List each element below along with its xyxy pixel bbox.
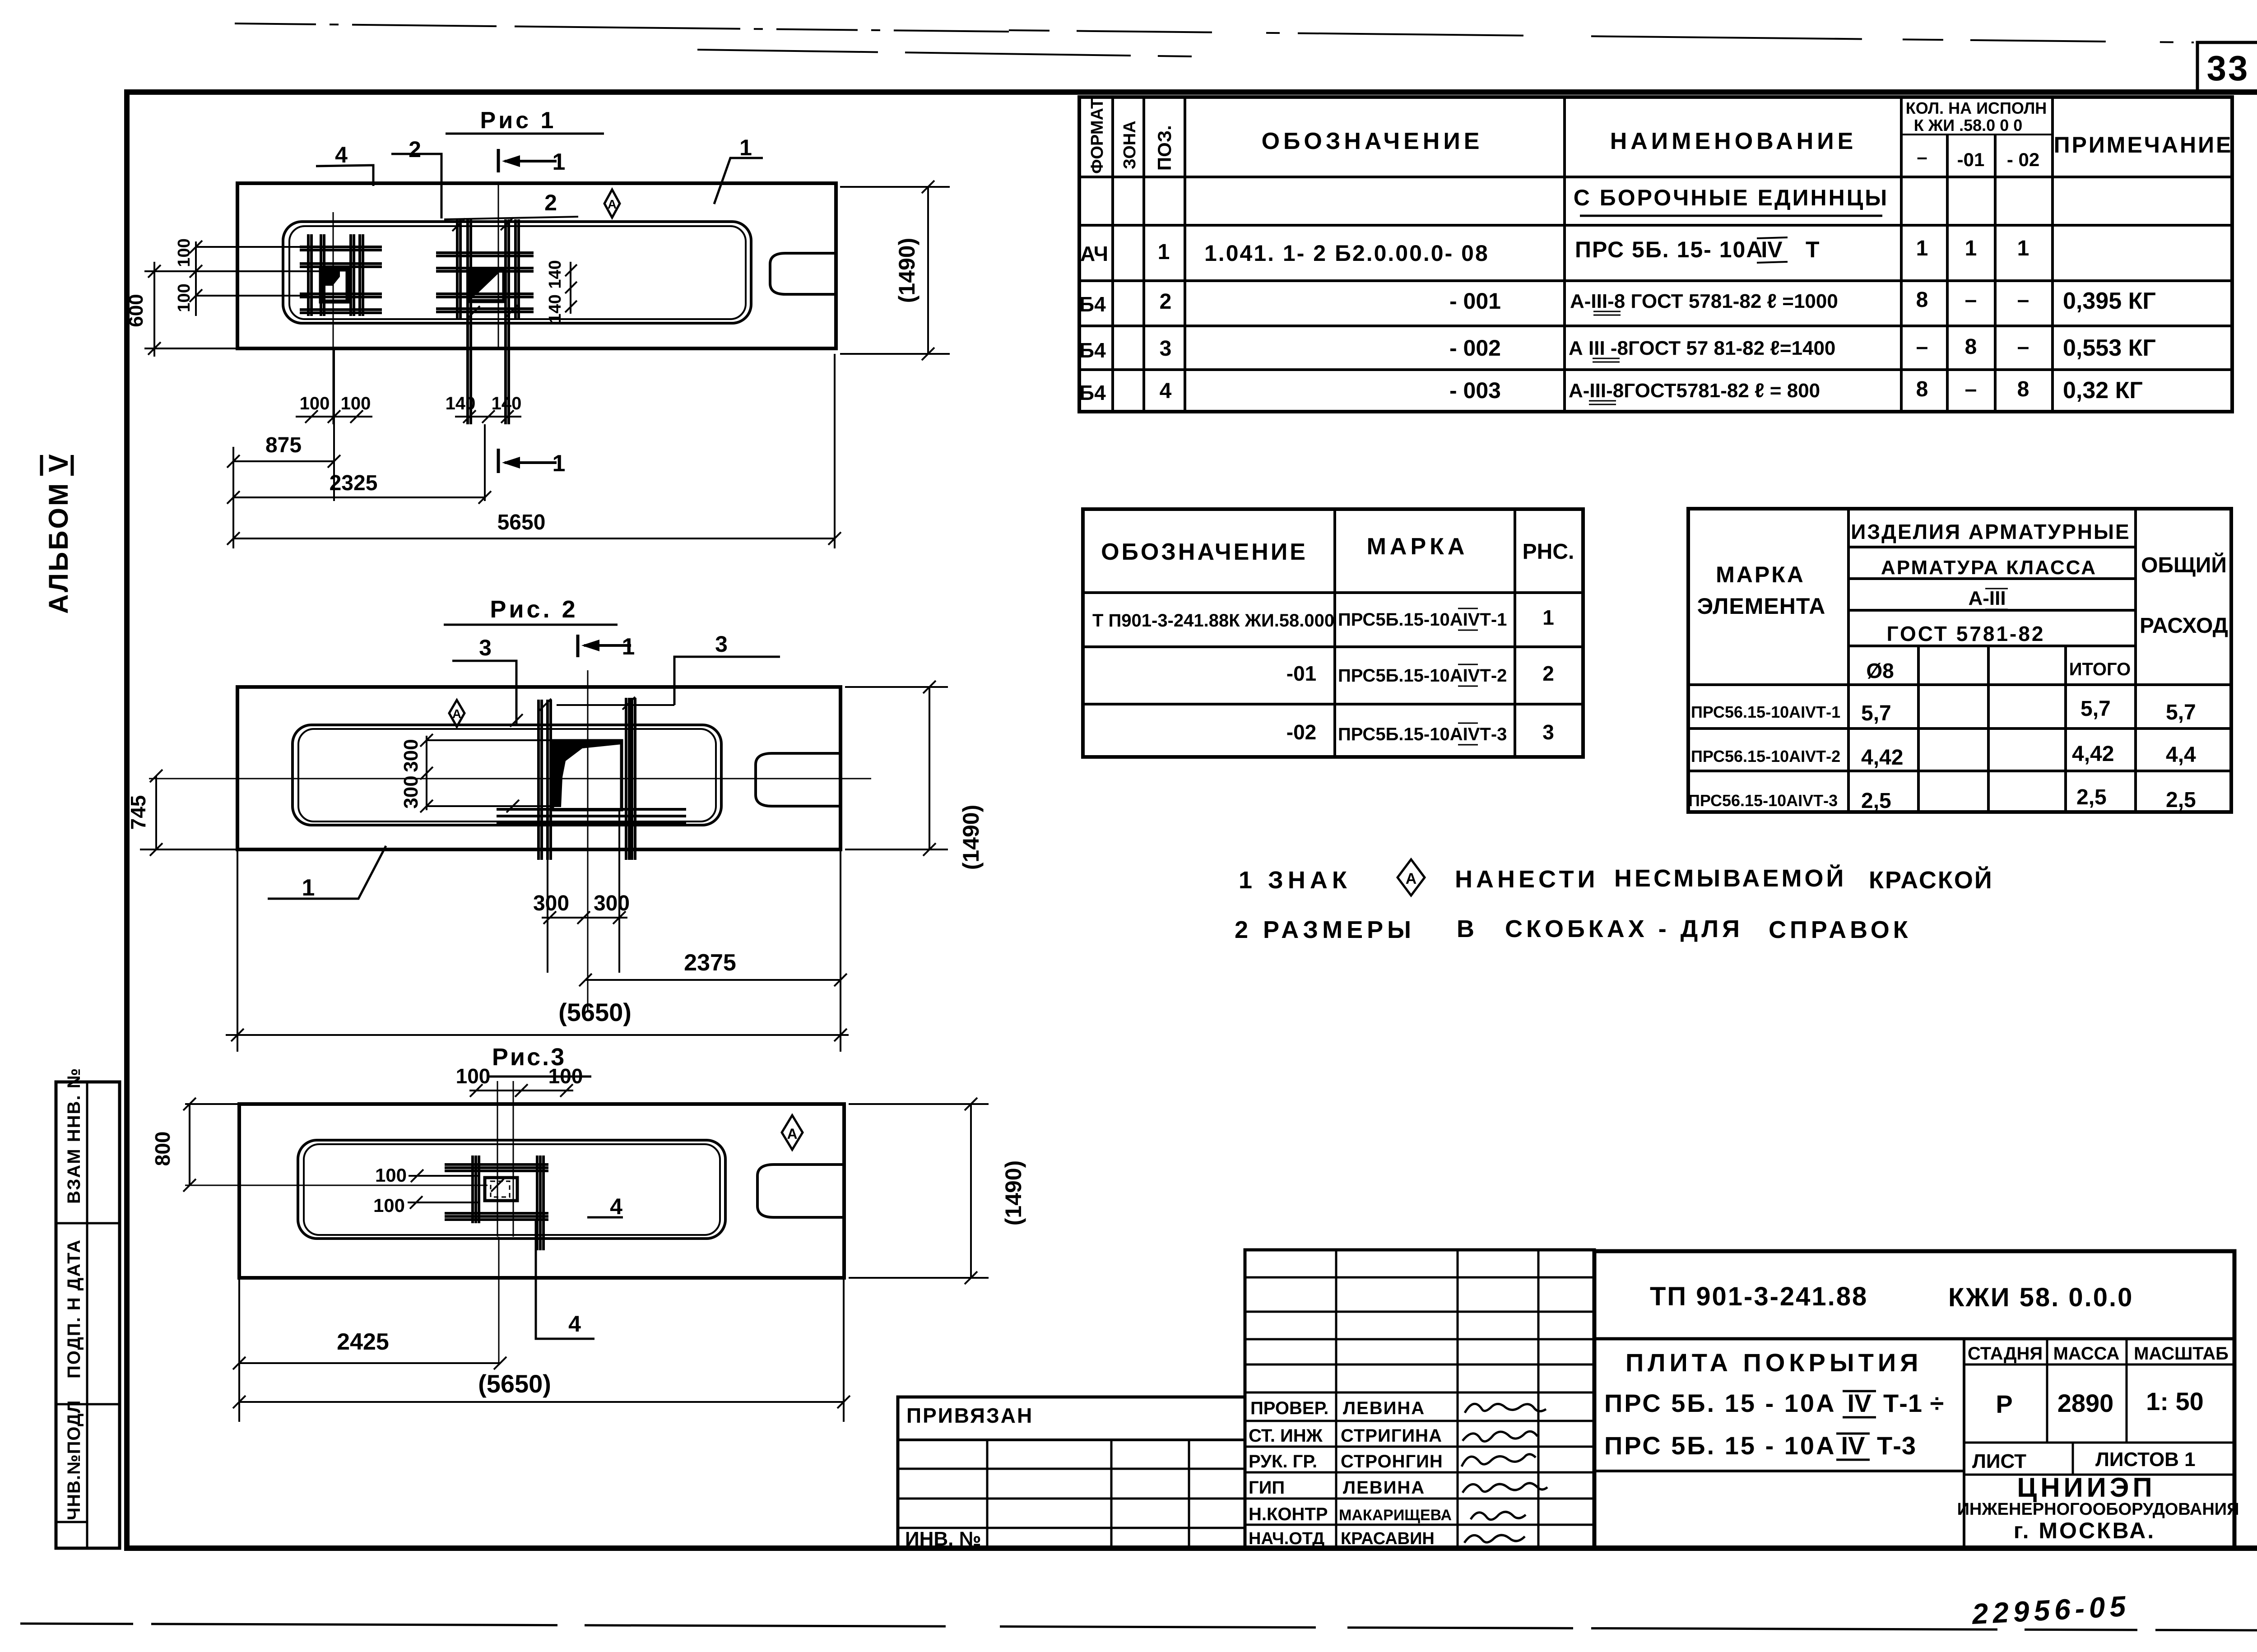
fig3 centerline horizontal [185, 1185, 488, 1186]
svg-text:1: 1 [302, 875, 315, 901]
fig2 lifting notch [756, 753, 841, 806]
fig3 dim 100 inside bottom [373, 1195, 478, 1216]
fig3 leader 4 below [536, 1219, 594, 1339]
svg-text:–: – [2017, 335, 2029, 359]
svg-text:1: 1 [622, 634, 635, 660]
svg-text:–: – [1965, 288, 1977, 312]
scan streak top line 3 [697, 50, 1192, 56]
svg-text:8: 8 [1965, 335, 1977, 359]
svg-text:А: А [1406, 870, 1417, 887]
svg-text:КРАСКОЙ: КРАСКОЙ [1869, 866, 1993, 894]
svg-text:(5650): (5650) [558, 998, 632, 1026]
svg-text:IV: IV [1841, 1431, 1865, 1460]
svg-text:5650: 5650 [497, 510, 546, 534]
svg-text:1: 1 [1916, 237, 1928, 260]
svg-text:–: – [1965, 377, 1977, 401]
svg-text:Ø8: Ø8 [1866, 659, 1894, 682]
svg-text:ПРС56.15-10АIVТ-2: ПРС56.15-10АIVТ-2 [1691, 747, 1840, 766]
svg-text:1: 1 [739, 135, 752, 160]
svg-text:ИНВ. №: ИНВ. № [905, 1528, 981, 1550]
svg-text:А-III: А-III [1968, 587, 2006, 609]
svg-text:100: 100 [375, 1165, 407, 1186]
svg-text:–: – [2017, 288, 2029, 312]
fig1 left dim 600 [125, 262, 161, 357]
svg-text:2375: 2375 [684, 950, 736, 976]
svg-text:3: 3 [1542, 720, 1554, 744]
svg-text:–: – [1916, 335, 1928, 359]
spec row 1 [1080, 237, 2029, 266]
svg-text:IV: IV [1848, 1389, 1872, 1417]
svg-text:2890: 2890 [2057, 1389, 2114, 1417]
fig2 section marker 1 [578, 634, 635, 660]
fig3 dim 800 left [151, 1098, 239, 1192]
svg-text:МАКАРИЩЕВА: МАКАРИЩЕВА [1339, 1507, 1452, 1524]
spec table column lines [1113, 97, 2053, 412]
svg-text:5,7: 5,7 [1861, 701, 1891, 725]
fig2 recess inner [298, 729, 716, 821]
svg-text:8: 8 [1916, 377, 1928, 401]
signature squiggle 3 [1462, 1454, 1536, 1466]
fig1 label 2 on bar [444, 190, 578, 219]
svg-text:(5650): (5650) [478, 1369, 551, 1398]
svg-text:-01: -01 [1286, 662, 1316, 685]
SECTION:REINFTABLE [1688, 509, 2231, 813]
svg-text:ПЛИТА ПОКРЫТИЯ: ПЛИТА ПОКРЫТИЯ [1625, 1348, 1922, 1377]
fig3 recess outer [298, 1140, 725, 1239]
fig2 dim 300 300 inside [400, 734, 556, 812]
svg-text:ПРС56.15-10АIVТ-1: ПРС56.15-10АIVТ-1 [1691, 703, 1840, 721]
svg-text:С БОРОЧНЫЕ ЕДИННЦЫ: С БОРОЧНЫЕ ЕДИННЦЫ [1574, 185, 1889, 210]
svg-text:ЭЛЕМЕНТА: ЭЛЕМЕНТА [1697, 594, 1826, 619]
svg-text:- 02: - 02 [2007, 149, 2039, 170]
fig3 title underline [488, 1076, 591, 1078]
fig2 dim 300 300 below [533, 891, 630, 924]
svg-text:СКОБКАХ - ДЛЯ: СКОБКАХ - ДЛЯ [1505, 915, 1743, 942]
fig1 recess inner [289, 226, 746, 319]
svg-text:ЛЕВИНА: ЛЕВИНА [1343, 1478, 1425, 1498]
reinf table verticals [1848, 509, 2136, 812]
fig1 mesh B verticals [457, 219, 519, 424]
svg-text:4: 4 [568, 1311, 581, 1336]
svg-text:ФОРМАТ: ФОРМАТ [1088, 98, 1107, 174]
fig1 dim 100 100 below [296, 394, 372, 423]
svg-text:2,5: 2,5 [2076, 785, 2107, 809]
fig1 mesh B square [469, 269, 504, 301]
svg-text:А III -8ГОСТ 57 81-82 ℓ=1400: А III -8ГОСТ 57 81-82 ℓ=1400 [1569, 337, 1835, 359]
privyazan grid horizontals [898, 1469, 1245, 1528]
fig2 mesh top bar link [557, 704, 674, 706]
central grid horizontals upper [1245, 1277, 1594, 1392]
fig3 dim 2425 [233, 1329, 506, 1369]
fig1 dim 5650 [227, 510, 841, 545]
svg-text:АЧ: АЧ [1080, 242, 1108, 265]
stamp strip divider vertical [86, 1082, 88, 1548]
signature squiggle 4 [1463, 1483, 1547, 1493]
svg-text:IV: IV [1761, 237, 1783, 262]
svg-text:8: 8 [1916, 288, 1928, 312]
fig3 center verticals [497, 1081, 513, 1363]
svg-text:ЛИСТ: ЛИСТ [1972, 1450, 2026, 1472]
svg-text:СТРИГИНА: СТРИГИНА [1341, 1426, 1442, 1446]
svg-text:1 ЗНАК: 1 ЗНАК [1239, 867, 1351, 894]
svg-text:1: 1 [1158, 240, 1170, 264]
fig3 extension verticals [239, 1278, 844, 1422]
fig2 extension verticals below [237, 808, 841, 1052]
svg-text:-01: -01 [1957, 149, 1985, 170]
fig2 recess outer [293, 725, 721, 825]
SECTION:FIG1 [125, 107, 950, 548]
reinf row 3 [1688, 785, 2196, 813]
svg-text:ГОСТ 5781-82: ГОСТ 5781-82 [1886, 622, 2045, 645]
fig1 mesh B dark corner [471, 271, 501, 298]
fig2 mesh verticals right [626, 698, 635, 860]
reinf row 2 [1691, 742, 2196, 770]
svg-text:Рис 1: Рис 1 [480, 107, 557, 134]
svg-text:- 003: - 003 [1449, 378, 1501, 403]
fig3 dim 1490 right [849, 1098, 1026, 1284]
svg-text:600: 600 [125, 294, 147, 327]
svg-text:875: 875 [265, 433, 302, 457]
privyazan box [898, 1397, 1245, 1548]
svg-text:2325: 2325 [330, 471, 378, 495]
svg-text:140: 140 [492, 394, 522, 413]
svg-text:3: 3 [715, 631, 728, 657]
svg-text:4: 4 [335, 142, 348, 167]
SECTION:SPECTABLE [1079, 97, 2233, 412]
svg-text:2 РАЗМЕРЫ: 2 РАЗМЕРЫ [1235, 916, 1415, 943]
fig2 quality mark diamond [449, 700, 464, 727]
svg-text:ПОДП. Н ДАТА: ПОДП. Н ДАТА [64, 1239, 84, 1378]
svg-text:МАСШТАБ: МАСШТАБ [2134, 1344, 2229, 1364]
svg-text:НАНЕСТИ: НАНЕСТИ [1455, 866, 1598, 893]
svg-text:РАСХОД: РАСХОД [2140, 614, 2228, 638]
fig2 leader 1 bottom [268, 846, 386, 901]
svg-text:Т-1 ÷: Т-1 ÷ [1883, 1389, 1944, 1417]
svg-text:ТП 901-3-241.88: ТП 901-3-241.88 [1650, 1282, 1868, 1311]
svg-text:Б4: Б4 [1079, 339, 1106, 362]
svg-text:ГИП: ГИП [1249, 1478, 1285, 1498]
central grid verticals [1336, 1250, 1538, 1548]
scan streak bottom line [20, 1624, 2257, 1630]
svg-text:ОБОЗНАЧЕНИЕ: ОБОЗНАЧЕНИЕ [1262, 128, 1483, 154]
stamp strip divider h2 [56, 1403, 120, 1406]
svg-text:КЖИ 58. 0.0.0: КЖИ 58. 0.0.0 [1948, 1283, 2133, 1312]
svg-text:4: 4 [1160, 379, 1172, 403]
svg-text:ВЗАМ ННВ. №: ВЗАМ ННВ. № [64, 1067, 84, 1204]
svg-text:В: В [1457, 915, 1474, 942]
spec table row lines [1079, 177, 2232, 370]
svg-text:(1490): (1490) [1001, 1160, 1026, 1226]
fig2 dim 1490 right [845, 681, 984, 870]
fig3 plate outline [239, 1104, 844, 1278]
fig1 recess outer [283, 222, 751, 323]
signature squiggle 5 [1471, 1512, 1526, 1519]
fig1 plate outline [237, 183, 836, 348]
svg-text:А-III-8 ГОСТ 5781-82 ℓ =1000: А-III-8 ГОСТ 5781-82 ℓ =1000 [1570, 290, 1838, 312]
album V underbar [71, 455, 74, 476]
svg-text:300: 300 [533, 891, 569, 915]
svg-text:300: 300 [400, 739, 422, 772]
fig3 recess inner [304, 1144, 720, 1235]
central grid horizontals signature rows [1245, 1421, 1594, 1525]
signature squiggle 2 [1463, 1431, 1537, 1441]
svg-text:0,553 КГ: 0,553 КГ [2063, 335, 2156, 361]
svg-text:1: 1 [1965, 237, 1977, 260]
fig1 dim 2325 [227, 471, 491, 504]
SECTION:NOTES [1235, 859, 1993, 943]
svg-text:СТАДНЯ: СТАДНЯ [1968, 1344, 2043, 1364]
title name area divider [1594, 1470, 1964, 1472]
svg-text:300: 300 [400, 775, 422, 808]
signature squiggle 1 [1465, 1404, 1546, 1413]
svg-text:ОБЩИЙ: ОБЩИЙ [2141, 552, 2227, 577]
svg-text:1: 50: 1: 50 [2146, 1387, 2204, 1415]
fig1 left dim 100 100 labels [175, 238, 202, 316]
svg-text:2425: 2425 [337, 1329, 389, 1355]
svg-text:СТ. ИНЖ: СТ. ИНЖ [1249, 1426, 1323, 1446]
fig2 title underline [444, 624, 618, 626]
note diamond [1398, 859, 1425, 896]
svg-text:А: А [787, 1126, 797, 1142]
fig2 leader 3 left [452, 635, 516, 725]
svg-text:Р: Р [1996, 1390, 2012, 1418]
fig1 leader 4 [316, 142, 373, 186]
svg-text:К ЖИ .58.0 0 0: К ЖИ .58.0 0 0 [1914, 116, 2023, 135]
fig1 dim 875 [227, 433, 340, 468]
fig1 mesh B horizontals [436, 253, 534, 312]
fig1 dim 1490 right [840, 181, 950, 360]
fig2 mesh verticals left [539, 700, 551, 860]
svg-text:ЛИСТОВ 1: ЛИСТОВ 1 [2095, 1448, 2196, 1471]
svg-text:(1490): (1490) [894, 238, 920, 303]
svg-text:3: 3 [1160, 337, 1172, 361]
svg-text:5,7: 5,7 [2081, 697, 2111, 721]
svg-text:5,7: 5,7 [2166, 701, 2196, 724]
fig2 mesh dark flag [553, 741, 622, 807]
fig1 title underline [446, 133, 604, 135]
fig2 dim 2375 [579, 950, 847, 986]
svg-text:-02: -02 [1286, 720, 1316, 744]
svg-text:Т: Т [1806, 237, 1820, 262]
spec table kol subsplit [1901, 134, 2053, 135]
svg-text:ЧНВ.№ПОДЛ: ЧНВ.№ПОДЛ [64, 1400, 84, 1520]
svg-text:А-III-8ГОСТ5781-82 ℓ = 800: А-III-8ГОСТ5781-82 ℓ = 800 [1569, 380, 1820, 402]
fig1 extension verticals below [233, 348, 835, 548]
svg-text:1: 1 [553, 450, 566, 477]
svg-text:4,42: 4,42 [1861, 746, 1903, 770]
svg-text:АЛЬБОМ V: АЛЬБОМ V [43, 452, 74, 614]
title doc number row divider [1594, 1337, 2234, 1341]
svg-text:ЦНИИЭП: ЦНИИЭП [2017, 1472, 2155, 1503]
svg-text:100: 100 [300, 394, 330, 413]
svg-text:КРАСАВИН: КРАСАВИН [1341, 1529, 1435, 1548]
svg-text:100: 100 [456, 1064, 491, 1088]
svg-text:140: 140 [546, 294, 565, 323]
fig2 centerline horizontal [149, 778, 871, 780]
fig3 mesh verticals [473, 1155, 543, 1250]
spec row 4 [1079, 377, 2143, 404]
svg-text:1.041. 1- 2 Б2.0.00.0- 08: 1.041. 1- 2 Б2.0.00.0- 08 [1204, 241, 1489, 266]
privyazan divider [898, 1439, 1245, 1441]
scan streak top line 1 [235, 23, 1009, 32]
svg-text:33: 33 [2207, 48, 2250, 88]
mark row 3 [1286, 720, 1554, 745]
fig1 mesh A square [321, 269, 348, 302]
stadiya massa masshtab grid [1963, 1339, 1965, 1548]
svg-text:1: 1 [553, 149, 566, 175]
stamp strip divider h3 [56, 1521, 87, 1523]
svg-text:745: 745 [126, 795, 150, 830]
fig1 mesh A horizontals [300, 247, 382, 313]
fig3 dim 100 inside top [375, 1165, 504, 1192]
svg-text:100: 100 [341, 394, 371, 413]
svg-text:4: 4 [610, 1194, 622, 1219]
svg-text:2: 2 [1160, 290, 1172, 314]
svg-text:8: 8 [2017, 377, 2029, 401]
mark table rows [1083, 593, 1583, 704]
svg-text:ПРС56.15-10АIVТ-3: ПРС56.15-10АIVТ-3 [1688, 791, 1838, 810]
mark row 2 [1286, 662, 1554, 686]
svg-text:МАРКА: МАРКА [1716, 562, 1805, 587]
svg-text:ПРС5Б.15-10АIVТ-3: ПРС5Б.15-10АIVТ-3 [1338, 724, 1507, 744]
fig1 cut line 1 through plate [498, 185, 499, 348]
svg-text:ПРС 5Б. 15- 10А: ПРС 5Б. 15- 10А [1575, 237, 1763, 262]
svg-text:Н.КОНТР: Н.КОНТР [1249, 1504, 1328, 1524]
svg-text:(1490): (1490) [958, 805, 984, 870]
svg-text:НАИМЕНОВАНИЕ: НАИМЕНОВАНИЕ [1610, 128, 1857, 154]
fig1 leader 2 top [391, 137, 441, 218]
svg-text:ПРС5Б.15-10АIVТ-2: ПРС5Б.15-10АIVТ-2 [1338, 666, 1507, 686]
mark row 1 [1092, 606, 1554, 631]
svg-text:МАССА: МАССА [2053, 1344, 2120, 1364]
album V overbar [40, 455, 43, 476]
fig1 mesh A verticals [308, 234, 363, 316]
svg-text:Б4: Б4 [1079, 381, 1106, 404]
spec table outer [1079, 97, 2232, 412]
mark table columns [1335, 509, 1515, 757]
fig3 dim 100 100 above [456, 1064, 583, 1097]
fig3 mesh horizontals [445, 1165, 548, 1220]
fig1 lifting notch [770, 253, 836, 294]
stamp strip outer box [56, 1082, 120, 1548]
svg-text:ПРС5Б.15-10АIVТ-1: ПРС5Б.15-10АIVТ-1 [1338, 610, 1507, 630]
svg-text:ПРИМЕЧАНИЕ: ПРИМЕЧАНИЕ [2054, 132, 2233, 158]
svg-text:3: 3 [479, 635, 492, 660]
svg-text:Рис. 2: Рис. 2 [490, 596, 578, 623]
reinf table horizontals [1688, 547, 2231, 771]
svg-text:ПОЗ.: ПОЗ. [1154, 125, 1175, 171]
fig3 leader 4 inside [587, 1194, 623, 1219]
SECTION:LEFTMARGIN [42, 452, 120, 1548]
fig3 mesh square [485, 1178, 517, 1201]
svg-text:А: А [452, 707, 461, 721]
spec row 2 [1079, 288, 2156, 316]
svg-text:РУК. ГР.: РУК. ГР. [1249, 1452, 1317, 1471]
fig2 dim 5650 [226, 998, 849, 1041]
svg-text:- 002: - 002 [1449, 335, 1501, 361]
SECTION:HANDWRITING [1971, 1590, 2131, 1630]
page number box [2197, 42, 2257, 93]
svg-text:800: 800 [151, 1132, 174, 1166]
title block right outer [1594, 1251, 2234, 1548]
fig1 dim 140 140 below [446, 394, 522, 423]
svg-text:Т-3: Т-3 [1877, 1431, 1916, 1460]
central signature grid outer [1245, 1250, 1594, 1548]
svg-text:ПРИВЯЗАН: ПРИВЯЗАН [906, 1404, 1033, 1427]
svg-text:КОЛ. НА ИСПОЛН: КОЛ. НА ИСПОЛН [1906, 99, 2047, 117]
scan streak top line 2 [1009, 30, 2194, 42]
fig1 leader 1 right [714, 135, 763, 204]
privyazan grid verticals [987, 1440, 1189, 1548]
fig1 left extension lines [144, 247, 321, 348]
spec row 3 [1079, 335, 2156, 362]
svg-text:ОБОЗНАЧЕНИЕ: ОБОЗНАЧЕНИЕ [1101, 539, 1308, 565]
svg-text:ИТОГО: ИТОГО [2069, 659, 2131, 679]
svg-text:140: 140 [446, 394, 476, 413]
fig1 mesh B tick slashes [452, 218, 518, 319]
fig1 mesh A dark corner [323, 271, 340, 286]
reinf table outer [1688, 509, 2231, 812]
SECTION:TITLEBLOCK [898, 1250, 2239, 1550]
SECTION:MARKTABLE [1083, 509, 1583, 757]
svg-text:НЕСМЫВАЕМОЙ: НЕСМЫВАЕМОЙ [1614, 864, 1846, 892]
svg-text:ПРС 5Б. 15 - 10А: ПРС 5Б. 15 - 10А [1604, 1389, 1836, 1417]
fig3 mesh inner square [491, 1181, 510, 1197]
svg-text:МАРКА: МАРКА [1367, 534, 1468, 560]
fig3 dim 5650 [233, 1369, 850, 1408]
svg-text:г. МОСКВА.: г. МОСКВА. [2014, 1518, 2155, 1543]
svg-text:1: 1 [1542, 606, 1554, 629]
fig2 mesh square [553, 741, 622, 810]
stamp strip divider h1 [56, 1222, 120, 1225]
svg-text:РНС.: РНС. [1523, 540, 1574, 564]
svg-text:ЗОНА: ЗОНА [1120, 121, 1139, 169]
fig2 mesh bar tick slashes [506, 697, 635, 812]
fig2 plate outline [237, 687, 841, 849]
svg-text:А: А [608, 197, 617, 211]
svg-text:ИЗДЕЛИЯ АРМАТУРНЫЕ: ИЗДЕЛИЯ АРМАТУРНЫЕ [1851, 520, 2130, 543]
fig3 lifting notch [757, 1165, 844, 1217]
svg-text:СТРОНГИН: СТРОНГИН [1341, 1452, 1443, 1471]
svg-text:2: 2 [544, 190, 557, 215]
mark table outer [1083, 509, 1583, 757]
svg-text:4,4: 4,4 [2166, 743, 2196, 767]
fig2 cut line vertical [587, 670, 589, 1011]
svg-text:АРМАТУРА КЛАССА: АРМАТУРА КЛАССА [1881, 557, 2097, 579]
signature squiggle 6 [1464, 1535, 1525, 1543]
fig1 quality mark diamond [604, 190, 620, 218]
svg-text:140: 140 [546, 260, 565, 288]
svg-text:ПРС 5Б. 15 - 10А: ПРС 5Б. 15 - 10А [1604, 1431, 1836, 1460]
svg-text:100: 100 [373, 1195, 405, 1216]
fig1 section marker 1 bottom [498, 449, 565, 477]
svg-text:- 001: - 001 [1449, 288, 1501, 314]
svg-text:Т П901-3-241.88К ЖИ.58.000: Т П901-3-241.88К ЖИ.58.000 [1092, 611, 1334, 631]
svg-text:ИНЖЕНЕРНОГООБОРУДОВАНИЯ: ИНЖЕНЕРНОГООБОРУДОВАНИЯ [1957, 1500, 2239, 1519]
svg-text:2: 2 [409, 137, 421, 162]
fig1 mesh A centerline [333, 212, 334, 424]
fig2 leader 3 right [674, 631, 780, 705]
svg-text:ЛЕВИНА: ЛЕВИНА [1343, 1398, 1425, 1418]
svg-text:0,395 КГ: 0,395 КГ [2063, 288, 2156, 314]
svg-text:100: 100 [175, 283, 194, 312]
svg-text:2: 2 [1542, 662, 1554, 685]
reinf row 1 [1691, 697, 2196, 725]
svg-text:2,5: 2,5 [1861, 789, 1891, 813]
fig1 section marker 1 top [498, 149, 565, 175]
svg-text:НАЧ.ОТД: НАЧ.ОТД [1249, 1529, 1324, 1548]
fig2 mesh horizontals bottom [497, 809, 686, 823]
